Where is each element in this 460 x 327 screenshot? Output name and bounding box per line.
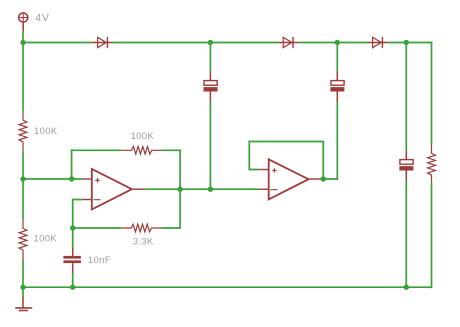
wire feedback2 loop — [249, 142, 323, 180]
wire R5 branch top — [431, 42, 433, 144]
wire 10nF bottom — [72, 273, 74, 288]
capacitor C3 (polarized, far right) — [399, 151, 413, 180]
node C1 output junction — [208, 187, 213, 192]
node op-amp1 output junction — [177, 187, 182, 192]
wire left vertical upper — [22, 43, 24, 112]
wire op-amp2 output to corner — [320, 178, 339, 180]
wire top rail segment 2 — [113, 42, 279, 44]
node top rail left junction — [20, 40, 25, 45]
wire cap C2 branch bottom — [336, 102, 338, 180]
capacitor C1 (polarized, mid) — [204, 72, 218, 102]
node top rail C3 junction — [404, 40, 409, 45]
wire feedback1 top left segment — [71, 149, 122, 151]
diode D2 — [278, 37, 298, 48]
svg-text:3.3K: 3.3K — [133, 236, 154, 247]
wire node row to op-amp1 +in — [23, 178, 82, 180]
resistor R3 100K (feedback, horizontal) — [121, 147, 162, 155]
op-amp U2 — [259, 159, 320, 199]
node left mid junction — [20, 176, 25, 181]
wire R5 branch bottom — [431, 183, 433, 288]
wire cap C1 branch bottom — [209, 102, 211, 189]
svg-text:100K: 100K — [34, 233, 58, 244]
wire cap C3 branch bottom — [405, 180, 407, 288]
node op-amp2 output junction — [321, 176, 326, 181]
node bottom rail ground junction — [20, 285, 25, 290]
wire top rail segment 4 — [388, 42, 433, 44]
svg-text:100K: 100K — [131, 130, 155, 141]
node bottom rail C3 junction — [404, 285, 409, 290]
ground — [15, 297, 32, 311]
svg-text:4V: 4V — [35, 13, 50, 24]
node bottom rail 10nF junction — [70, 285, 75, 290]
wire power drop — [22, 31, 24, 42]
diode D3 — [368, 37, 388, 48]
op-amp U1 — [82, 169, 146, 209]
capacitor C4 10nF — [63, 247, 81, 273]
wire left vertical middle — [22, 151, 24, 219]
wire cap C2 branch top — [336, 43, 338, 72]
wire top rail segment 1 — [22, 42, 92, 44]
wire left vertical lower — [22, 260, 24, 289]
wire bottom rail — [22, 286, 433, 288]
resistor R5 (right, vertical) — [428, 144, 436, 183]
wire cap C1 branch top — [209, 43, 211, 72]
node top rail C2 junction — [335, 40, 340, 45]
resistor R4 3.3K (horizontal) — [121, 224, 161, 232]
wire right vertical of op-amp1 loop — [179, 149, 181, 229]
svg-text:100K: 100K — [34, 125, 58, 136]
wire top rail segment 3 — [299, 42, 368, 44]
wire op-amp1 -in bend — [73, 200, 83, 248]
node minus1 3.3K junction — [70, 225, 75, 230]
power supply symbol 4V — [19, 13, 28, 32]
wire op-amp1 output row — [146, 188, 259, 190]
resistor R1 100K (left upper, vertical) — [19, 111, 27, 151]
wire cap C3 branch top — [405, 43, 407, 151]
wire 3.3K row left — [73, 227, 122, 229]
wire feedback1 left vertical — [71, 149, 73, 179]
resistor R2 100K (left lower, vertical) — [19, 219, 27, 260]
wire feedback1 top right segment — [162, 149, 181, 151]
wire ground drop — [22, 287, 24, 297]
capacitor C2 (polarized, right of op-amp2) — [330, 72, 344, 102]
wire 3.3K row right — [162, 227, 181, 229]
node feedback1 tap junction — [69, 176, 74, 181]
node top rail C1 junction — [208, 40, 213, 45]
diode D1 — [92, 37, 113, 48]
svg-text:10nF: 10nF — [88, 254, 111, 265]
